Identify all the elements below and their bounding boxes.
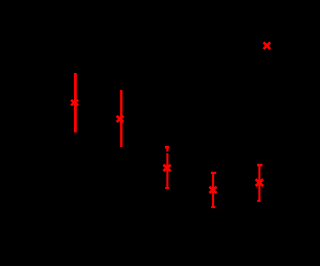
error bar 3 top cap <box>165 146 169 149</box>
marker 4 <box>209 187 216 193</box>
marker 2 <box>117 116 124 122</box>
error bar 5 top cap <box>257 164 262 167</box>
marker 5 <box>256 179 264 186</box>
error bar 1 line <box>74 73 77 133</box>
error bar 3 line gap <box>166 152 169 154</box>
legend marker <box>264 42 271 49</box>
error bar 2 line <box>120 90 122 147</box>
marker 3 <box>163 165 170 171</box>
error bar 3 line <box>166 146 168 189</box>
error bar 4 line <box>212 172 214 208</box>
error bar 5 line <box>258 164 260 202</box>
error bar 5 bottom cap <box>257 200 260 202</box>
marker 1 <box>71 100 78 105</box>
error bar 4 bottom cap <box>211 206 215 208</box>
error bar 4 top cap <box>211 172 216 174</box>
error bar 3 bottom cap <box>165 187 169 189</box>
